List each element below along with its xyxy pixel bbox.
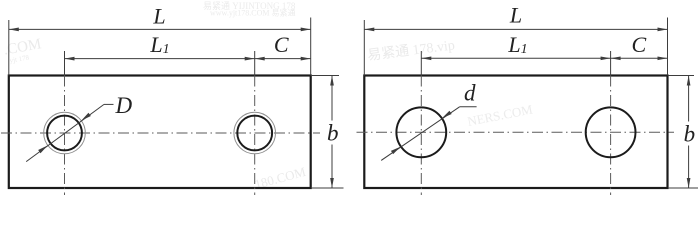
dimension line L1 <box>65 58 255 60</box>
leader d arrow upper <box>442 111 452 119</box>
centerline horizontal (right figure) <box>357 131 675 133</box>
hole 1 circle D <box>47 116 82 151</box>
extension line L1 left <box>64 51 66 76</box>
hole 1 counterbore thin circle <box>44 112 86 154</box>
svg-text:www.yjt178.COM 易紧通: www.yjt178.COM 易紧通 <box>210 8 295 18</box>
extension lines b (left figure) <box>312 75 339 77</box>
dimension line b (left) <box>331 76 333 189</box>
extension line L right (right fig) <box>667 18 669 76</box>
dimension line b (right) <box>688 76 690 189</box>
extension line L left <box>8 20 10 76</box>
centerline vertical hole 2 <box>254 76 256 196</box>
plate outline (left) <box>9 76 311 189</box>
centerline vertical hole 4 <box>610 76 612 196</box>
extension line L1 right <box>254 51 256 76</box>
dimension line C <box>255 58 311 60</box>
hole 2 circle <box>237 116 272 151</box>
plate outline (right) <box>364 76 667 189</box>
centerline vertical hole 3 <box>420 76 422 196</box>
watermark top center <box>203 1 296 18</box>
leader d arrow lower <box>391 147 401 155</box>
dimension line L <box>9 28 311 30</box>
svg-text:b: b <box>684 122 696 147</box>
svg-text:易紧通 178.vip: 易紧通 178.vip <box>367 37 456 64</box>
leader D arrow lower <box>38 145 48 153</box>
leader line d <box>381 107 459 161</box>
leader D tail <box>104 103 114 105</box>
extension lines b (right figure) <box>669 75 694 77</box>
svg-text:L: L <box>152 3 165 28</box>
svg-text:L1: L1 <box>507 32 527 57</box>
dimension line C (right fig) <box>611 57 668 59</box>
svg-text:L1: L1 <box>149 32 169 57</box>
leader D arrow upper <box>81 113 91 121</box>
svg-text:b: b <box>327 121 339 146</box>
extension line L1 right (right fig) <box>610 51 612 76</box>
leader line D <box>26 104 104 161</box>
leader d tail <box>460 106 477 108</box>
svg-text:C: C <box>631 32 646 57</box>
svg-text:L: L <box>509 3 522 28</box>
extension line L right <box>310 18 312 76</box>
svg-text:D: D <box>115 93 133 118</box>
svg-text:NERS.COM: NERS.COM <box>466 101 534 128</box>
centerline horizontal (left figure) <box>1 132 320 134</box>
dimension line L1 (right fig) <box>421 57 610 59</box>
hole 3 circle d <box>396 107 446 157</box>
centerline vertical hole 1 <box>64 76 66 196</box>
extension line L left (right fig) <box>363 20 365 76</box>
svg-text:d: d <box>464 81 476 106</box>
svg-text:C: C <box>274 32 289 57</box>
dimension line L (right fig) <box>364 28 667 30</box>
hole 2 counterbore thin circle <box>234 112 276 154</box>
hole 4 circle <box>586 107 636 157</box>
extension line L1 left (right fig) <box>420 51 422 76</box>
watermark left edge <box>2 36 43 65</box>
